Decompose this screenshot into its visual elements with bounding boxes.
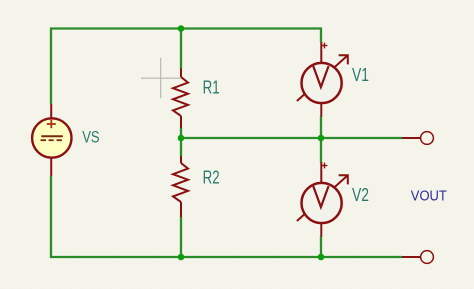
pin 1 R1 top [180,69,182,78]
pin 2 VS bottom [50,157,52,176]
V1 meter letter V [313,66,328,87]
V2 meter letter V [313,186,328,207]
junction node bottom R2 [178,254,185,261]
resistor R2 [173,156,188,217]
R2 zigzag body [173,163,188,202]
svg-text:R1: R1 [203,77,220,97]
VS battery dashed plate [41,139,62,141]
wire bottom loop: left vertical + bottom horizontal [51,176,402,257]
VS battery solid plate [41,135,63,137]
R1 zigzag body [173,77,188,116]
pin 2 R2 bottom [180,202,182,217]
svg-text:V2: V2 [352,185,369,205]
voltmeter V1 [297,42,348,117]
pin 1 VS top [50,104,52,119]
pin 1 R2 top [180,156,182,163]
wire between R1 and middle node [180,128,182,139]
V2 arrowhead [339,175,348,184]
pin 1 V1 top [320,42,322,62]
wire top loop: left vertical + top horizontal + right drop [51,29,321,105]
svg-text:VS: VS [82,127,99,146]
pin 1 V2 top [320,162,322,182]
VS plus mark [47,120,56,128]
wire between middle node and R2 [180,138,182,157]
wire below V2 to bottom node [320,236,322,257]
wire middle node to V2 [320,138,322,163]
junction node at top of R1 branch [178,25,185,32]
terminal pin VOUT middle [402,137,421,139]
wire middle branch above R1 [180,29,182,70]
pin 2 R1 bottom [180,116,182,128]
V1 arrow diagonal [297,55,348,101]
svg-text:V1: V1 [352,65,369,85]
voltmeter V2 [297,162,348,237]
V1 body circle [302,63,342,103]
V1 plus mark [322,43,328,49]
svg-text:VOUT: VOUT [411,189,447,205]
wire below V1 to middle node [320,116,322,138]
VS body circle [32,118,71,157]
resistor R1 [173,69,188,129]
svg-text:R2: R2 [203,167,220,187]
pin 2 V2 bottom [320,224,322,237]
V2 arrow diagonal [297,175,348,221]
V2 plus mark [322,163,328,169]
terminal circle bottom [421,251,434,264]
voltage source VS [32,104,71,176]
terminal circle VOUT middle [421,132,434,145]
pin 2 V1 bottom [320,104,322,117]
V2 body circle [302,183,342,223]
junction node V1/V2 middle [318,135,325,142]
junction node bottom V2 [318,254,325,261]
wire middle horizontal from R node to terminal [181,137,402,139]
junction node R1/R2 divider [178,135,185,142]
terminal pin bottom [402,256,421,258]
wire below R2 [180,217,182,258]
cursor crosshair [141,58,181,98]
V1 arrowhead [339,55,348,64]
